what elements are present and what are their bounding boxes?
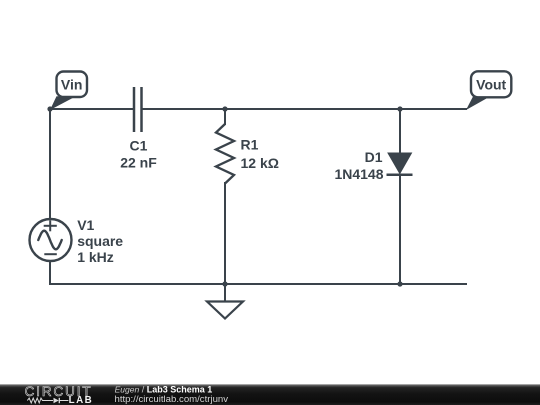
svg-text:square: square <box>77 233 123 249</box>
CircuitLab logo diode symbol <box>54 398 69 403</box>
node E: D1 bottom junction dot <box>397 281 402 286</box>
svg-text:http://circuitlab.com/ctrjunv: http://circuitlab.com/ctrjunv <box>115 394 229 405</box>
svg-text:Eugen / Lab3 Schema 1: Eugen / Lab3 Schema 1 <box>115 385 213 395</box>
wire: bottom rail <box>50 283 466 285</box>
wire: top rail left segment (Vin node to C1) <box>50 108 134 110</box>
net label Vout <box>466 71 511 110</box>
node C: D1 top junction dot <box>397 106 402 111</box>
voltage source V1 <box>30 219 72 261</box>
footer bar <box>0 384 540 405</box>
diode D1 <box>387 153 413 175</box>
svg-text:Vout: Vout <box>476 76 506 92</box>
svg-text:1 kHz: 1 kHz <box>77 249 114 265</box>
svg-text:C1: C1 <box>130 138 148 154</box>
svg-text:1N4148: 1N4148 <box>334 166 383 182</box>
wire: top rail D1 node to Vout tail <box>400 108 466 110</box>
label C1 value <box>120 138 157 171</box>
label D1 value <box>334 149 383 182</box>
svg-text:D1: D1 <box>365 149 383 165</box>
resistor R1 <box>216 124 234 184</box>
svg-text:LAB: LAB <box>69 395 94 405</box>
svg-text:22 nF: 22 nF <box>120 155 157 171</box>
node B: R1 top junction dot <box>222 106 227 111</box>
wire: top rail C1 to R1 node <box>142 108 226 110</box>
svg-text:R1: R1 <box>241 137 259 153</box>
ground <box>207 284 243 319</box>
label R1 value <box>241 137 279 171</box>
node A: Vin node dot <box>47 106 52 111</box>
svg-text:V1: V1 <box>77 217 94 233</box>
svg-text:12 kΩ: 12 kΩ <box>241 155 279 171</box>
wire: top rail R1 node to D1 node <box>225 108 400 110</box>
net label Vin <box>50 72 87 111</box>
wire: R1 top lead <box>224 109 226 124</box>
label V1 value <box>77 217 123 265</box>
capacitor C1 <box>134 87 142 132</box>
wire: left rail V1 bottom <box>49 261 51 284</box>
wire: R1 bottom lead <box>224 183 226 284</box>
wire: left rail V1 top <box>49 109 51 219</box>
svg-text:Vin: Vin <box>61 76 83 92</box>
CircuitLab logo resistor zigzag <box>27 398 53 403</box>
node D: R1 bottom junction dot <box>222 281 227 286</box>
wire: D1 top lead <box>399 109 401 154</box>
wire: D1 bottom lead <box>399 175 401 284</box>
